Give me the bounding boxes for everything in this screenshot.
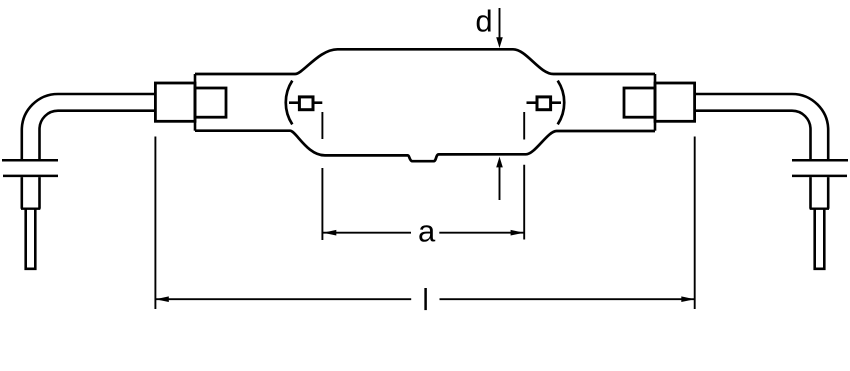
- wire left lead inner bend: [40, 111, 156, 161]
- left base end plate: [194, 74, 197, 131]
- right electrode body: [537, 97, 551, 110]
- wire left lead below clamp: [22, 177, 40, 209]
- right inner dome arc: [558, 81, 565, 125]
- left base inner plug: [195, 88, 226, 117]
- dimension a left extension line: [321, 112, 323, 240]
- bulb outline top: [195, 49, 655, 74]
- right electrode lead-in stub: [552, 101, 561, 104]
- right clamp bar lower: [792, 175, 847, 178]
- left electrode tip stub: [315, 101, 323, 104]
- left electrode lead-in stub: [289, 101, 298, 104]
- dimension a line: [323, 232, 524, 234]
- svg-text:a: a: [418, 214, 436, 249]
- left lead step shoulder: [21, 207, 40, 209]
- left clamp bar upper: [2, 159, 58, 162]
- dimension d arrow shaft: [499, 8, 501, 40]
- dimension d bottom arrowhead: [496, 157, 503, 168]
- svg-text:d: d: [475, 4, 492, 39]
- dimension a right extension line: [523, 112, 525, 240]
- dimension l left extension line: [154, 137, 156, 310]
- left contact pin rod: [26, 209, 36, 269]
- wire left lead outer bend: [22, 94, 156, 160]
- wire right lead inner bend: [695, 111, 811, 161]
- left clamp bar lower: [3, 175, 58, 178]
- right contact pin rod: [815, 209, 825, 269]
- right base ferrule: [655, 83, 695, 121]
- left base ferrule: [155, 83, 195, 121]
- label l: [424, 288, 427, 310]
- dimension l right arrowhead: [681, 296, 694, 302]
- dimension l left arrowhead: [155, 296, 168, 302]
- bulb outline bottom: [195, 131, 655, 162]
- dimension a left arrowhead: [323, 230, 336, 236]
- dimension l line: [155, 298, 694, 300]
- wire right lead outer bend: [695, 94, 829, 160]
- left inner dome arc: [286, 81, 293, 125]
- left electrode body: [299, 97, 313, 110]
- dimension d arrowhead: [496, 37, 503, 48]
- right lead step shoulder: [810, 207, 829, 209]
- right electrode tip stub: [527, 101, 536, 104]
- right base end plate: [654, 74, 657, 131]
- right clamp bar upper: [792, 159, 848, 162]
- right base inner plug: [624, 88, 655, 117]
- dimension a right arrowhead: [511, 230, 524, 236]
- wire right lead below clamp: [811, 177, 829, 209]
- dimension l right extension line: [694, 137, 696, 310]
- dimension d bottom arrow shaft: [499, 164, 501, 200]
